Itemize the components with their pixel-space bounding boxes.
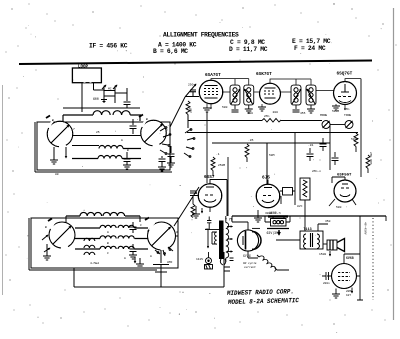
svg-text:8MF: 8MF: [167, 261, 173, 264]
svg-text:6V6G: 6V6G: [346, 256, 354, 260]
svg-text:110V: 110V: [196, 258, 203, 261]
svg-text:500: 500: [336, 206, 342, 209]
svg-text:A: A: [150, 255, 152, 258]
svg-text:50M: 50M: [269, 154, 275, 157]
svg-text:4-Mad: 4-Mad: [90, 261, 99, 265]
svg-text:D = 11,7 MC: D = 11,7 MC: [229, 46, 268, 53]
svg-text:80: 80: [55, 173, 59, 176]
svg-text:B: B: [52, 119, 54, 122]
svg-text:A: A: [121, 139, 123, 142]
svg-text:B = 6,6 MC: B = 6,6 MC: [153, 48, 188, 55]
svg-text:ALLIGNMENT FREQUENCIES: ALLIGNMENT FREQUENCIES: [163, 32, 239, 39]
svg-text:2Mn: 2Mn: [188, 107, 192, 113]
svg-text:T 79: T 79: [225, 218, 233, 222]
svg-text:20Mn: 20Mn: [346, 290, 353, 293]
svg-text:10?: 10?: [346, 294, 351, 297]
svg-text:6SK7GT: 6SK7GT: [256, 72, 272, 77]
svg-text:B: B: [146, 118, 148, 121]
svg-text:B: B: [45, 226, 47, 229]
svg-text:C: C: [140, 224, 142, 227]
svg-text:60 cycle: 60 cycle: [243, 261, 257, 265]
svg-text:T113: T113: [304, 228, 312, 232]
svg-text:C: C: [107, 252, 109, 255]
svg-text:500: 500: [248, 112, 254, 115]
svg-text:200n: 200n: [323, 282, 330, 285]
svg-text:AVC: AVC: [297, 205, 303, 208]
svg-text:200: 200: [273, 111, 279, 114]
svg-text:455: 455: [300, 112, 306, 115]
svg-text:IF = 456 KC: IF = 456 KC: [89, 43, 128, 50]
svg-text:LOOP: LOOP: [78, 66, 89, 70]
svg-text:MC: MC: [108, 88, 112, 91]
svg-text:.01: .01: [308, 144, 314, 147]
svg-text:B: B: [107, 242, 109, 245]
svg-text:C: C: [147, 230, 149, 233]
svg-text:C: C: [166, 129, 168, 132]
svg-text:500M: 500M: [351, 138, 358, 141]
svg-text:F = 24 MC: F = 24 MC: [294, 45, 326, 52]
svg-text:1000-n: 1000-n: [269, 211, 281, 215]
svg-text:C = 9,8 MC: C = 9,8 MC: [230, 39, 265, 46]
svg-text:2Mn-n: 2Mn-n: [312, 170, 321, 173]
svg-text:25: 25: [96, 131, 100, 134]
svg-text:350: 350: [325, 220, 331, 223]
svg-text:63V|35V: 63V|35V: [267, 231, 280, 235]
svg-text:TONE: TONE: [344, 114, 351, 117]
svg-text:500: 500: [222, 106, 228, 109]
svg-text:E = 15,7 MC: E = 15,7 MC: [292, 38, 331, 45]
svg-text:1500: 1500: [319, 253, 326, 256]
svg-text:A: A: [176, 231, 178, 234]
svg-text:current: current: [244, 266, 256, 269]
svg-text:A: A: [124, 257, 126, 260]
svg-text:7: 7: [73, 128, 75, 131]
svg-text:2Mn: 2Mn: [264, 115, 270, 118]
svg-text:6SS7: 6SS7: [204, 175, 215, 180]
svg-text:500M: 500M: [332, 110, 339, 113]
svg-text:A: A: [107, 231, 109, 234]
svg-text:MIDWEST RADIO CORP.: MIDWEST RADIO CORP.: [226, 288, 294, 297]
svg-text:.05: .05: [248, 139, 254, 142]
svg-text:40-450V: 40-450V: [364, 222, 367, 235]
svg-text:600: 600: [93, 97, 99, 101]
svg-text:.1: .1: [216, 153, 220, 156]
svg-text:250: 250: [188, 84, 194, 87]
svg-text:MONE: MONE: [320, 114, 327, 117]
svg-text:2Mn POT: 2Mn POT: [369, 152, 372, 165]
svg-text:6SF5GT: 6SF5GT: [337, 174, 352, 178]
svg-text:MODEL 8-2A SCHEMATIC: MODEL 8-2A SCHEMATIC: [227, 297, 299, 306]
svg-text:6J5: 6J5: [262, 176, 270, 181]
svg-text:2Mn: 2Mn: [344, 108, 350, 111]
svg-text:40: 40: [205, 228, 209, 231]
svg-text:6SA7GT: 6SA7GT: [205, 73, 221, 78]
svg-text:6SQ7GT: 6SQ7GT: [337, 72, 353, 77]
svg-text:250M: 250M: [218, 164, 225, 167]
svg-text:5Y3G: 5Y3G: [243, 254, 251, 258]
svg-text:B: B: [127, 149, 129, 152]
